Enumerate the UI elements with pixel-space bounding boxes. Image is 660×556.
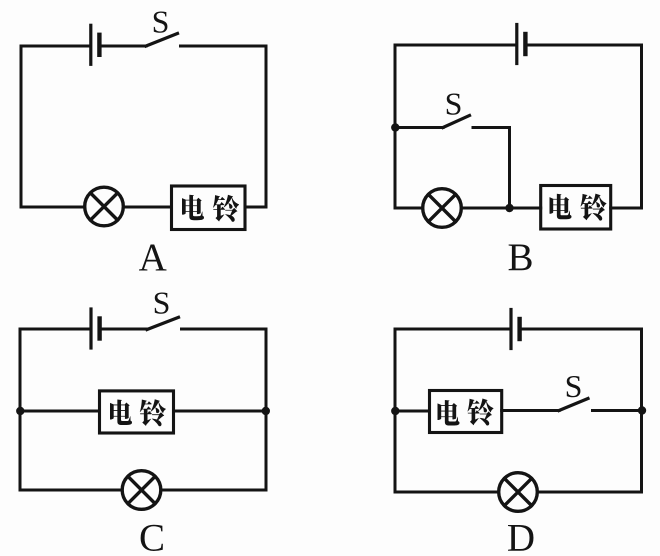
junction node (circuit B, left) (391, 123, 399, 131)
wire C middle-left segment (20, 410, 100, 413)
wire D middle-left segment (395, 410, 430, 413)
wire D right side (640, 329, 643, 492)
lamp L3 (circuit C) (122, 471, 161, 510)
junction node (circuit C, left) (16, 407, 24, 415)
wire D middle segment (bell to switch) (502, 409, 559, 412)
svg-text:S: S (153, 285, 171, 321)
wire A top-right segment (181, 45, 267, 48)
electric bell box (circuit A) (172, 186, 246, 230)
wire B bottom-middle segment (461, 207, 540, 210)
electric bell box (circuit C) (100, 391, 174, 433)
wire B bottom-left segment (395, 207, 423, 210)
wire D bottom-right segment (538, 491, 642, 494)
wire A top-left segment (21, 45, 89, 48)
bell label text 铃 (circuit D) (468, 398, 494, 425)
svg-text:B: B (507, 236, 533, 279)
wire D middle-right segment (593, 409, 642, 412)
wire C top-right segment (182, 328, 267, 331)
switch S (circuit D, open blade) (559, 399, 588, 411)
wire A bottom-middle segment (lamp to bell) (124, 206, 172, 209)
lamp L1 (circuit A) (85, 187, 124, 226)
wire A right side (265, 46, 268, 207)
electric bell box (circuit B) (541, 186, 611, 230)
junction node (circuit D, left) (391, 407, 399, 415)
electric bell box (circuit D) (430, 391, 502, 433)
svg-text:A: A (139, 236, 167, 279)
wire D top-right segment (522, 328, 642, 331)
bell label text 电 (circuit B) (549, 194, 571, 220)
battery BT1 (circuit A) (91, 25, 100, 64)
svg-text:S: S (152, 4, 170, 40)
wire C left side (19, 329, 22, 490)
battery BT2 (circuit B) (517, 25, 526, 64)
junction node (circuit D, right) (638, 406, 646, 414)
wire C bottom-right segment (161, 489, 266, 492)
junction node (circuit C, right) (262, 407, 270, 415)
wire A left side (20, 46, 23, 207)
wire D bottom-left segment (395, 491, 498, 494)
bell label text 铃 (circuit C) (140, 399, 166, 426)
wire C middle-right segment (174, 410, 267, 413)
wire B branch drop (508, 128, 511, 209)
wire B switch branch right (473, 126, 510, 129)
lamp L4 (circuit D) (499, 473, 538, 512)
junction node (circuit B, bottom) (505, 204, 513, 212)
wire A bottom-right segment (245, 206, 266, 209)
bell label text 电 (circuit C) (110, 399, 132, 425)
svg-text:S: S (445, 86, 463, 122)
bell label text 电 (circuit D) (437, 400, 459, 426)
battery BT3 (circuit C) (91, 309, 100, 348)
wire B top-right segment (528, 44, 642, 47)
wire A bottom-left segment (21, 206, 85, 209)
wire B bottom-right segment (611, 207, 642, 210)
wire C right side (265, 329, 268, 490)
svg-text:C: C (139, 517, 165, 556)
svg-text:S: S (565, 368, 583, 404)
switch S (circuit C, open blade) (147, 317, 179, 329)
wire C bottom-left segment (20, 489, 122, 492)
bell label text 电 (circuit A) (182, 195, 204, 221)
svg-text:D: D (507, 517, 535, 556)
wire D top-left segment (395, 328, 509, 331)
wire B right side (640, 45, 643, 208)
bell label text 铃 (circuit B) (581, 194, 607, 221)
switch S (circuit B, open blade) (443, 116, 470, 128)
wire C top-middle segment (102, 328, 147, 331)
bell label text 铃 (circuit A) (213, 195, 239, 222)
lamp L2 (circuit B) (423, 189, 462, 228)
switch S (circuit A, open blade) (146, 34, 178, 47)
wire B top-left segment (395, 44, 515, 47)
wire D left side (394, 329, 397, 492)
wire B switch branch left (395, 126, 443, 129)
wire C top-left segment (20, 328, 89, 331)
wire B left side (394, 45, 397, 208)
wire A top-middle segment (102, 45, 146, 48)
battery BT4 (circuit D) (511, 310, 520, 349)
